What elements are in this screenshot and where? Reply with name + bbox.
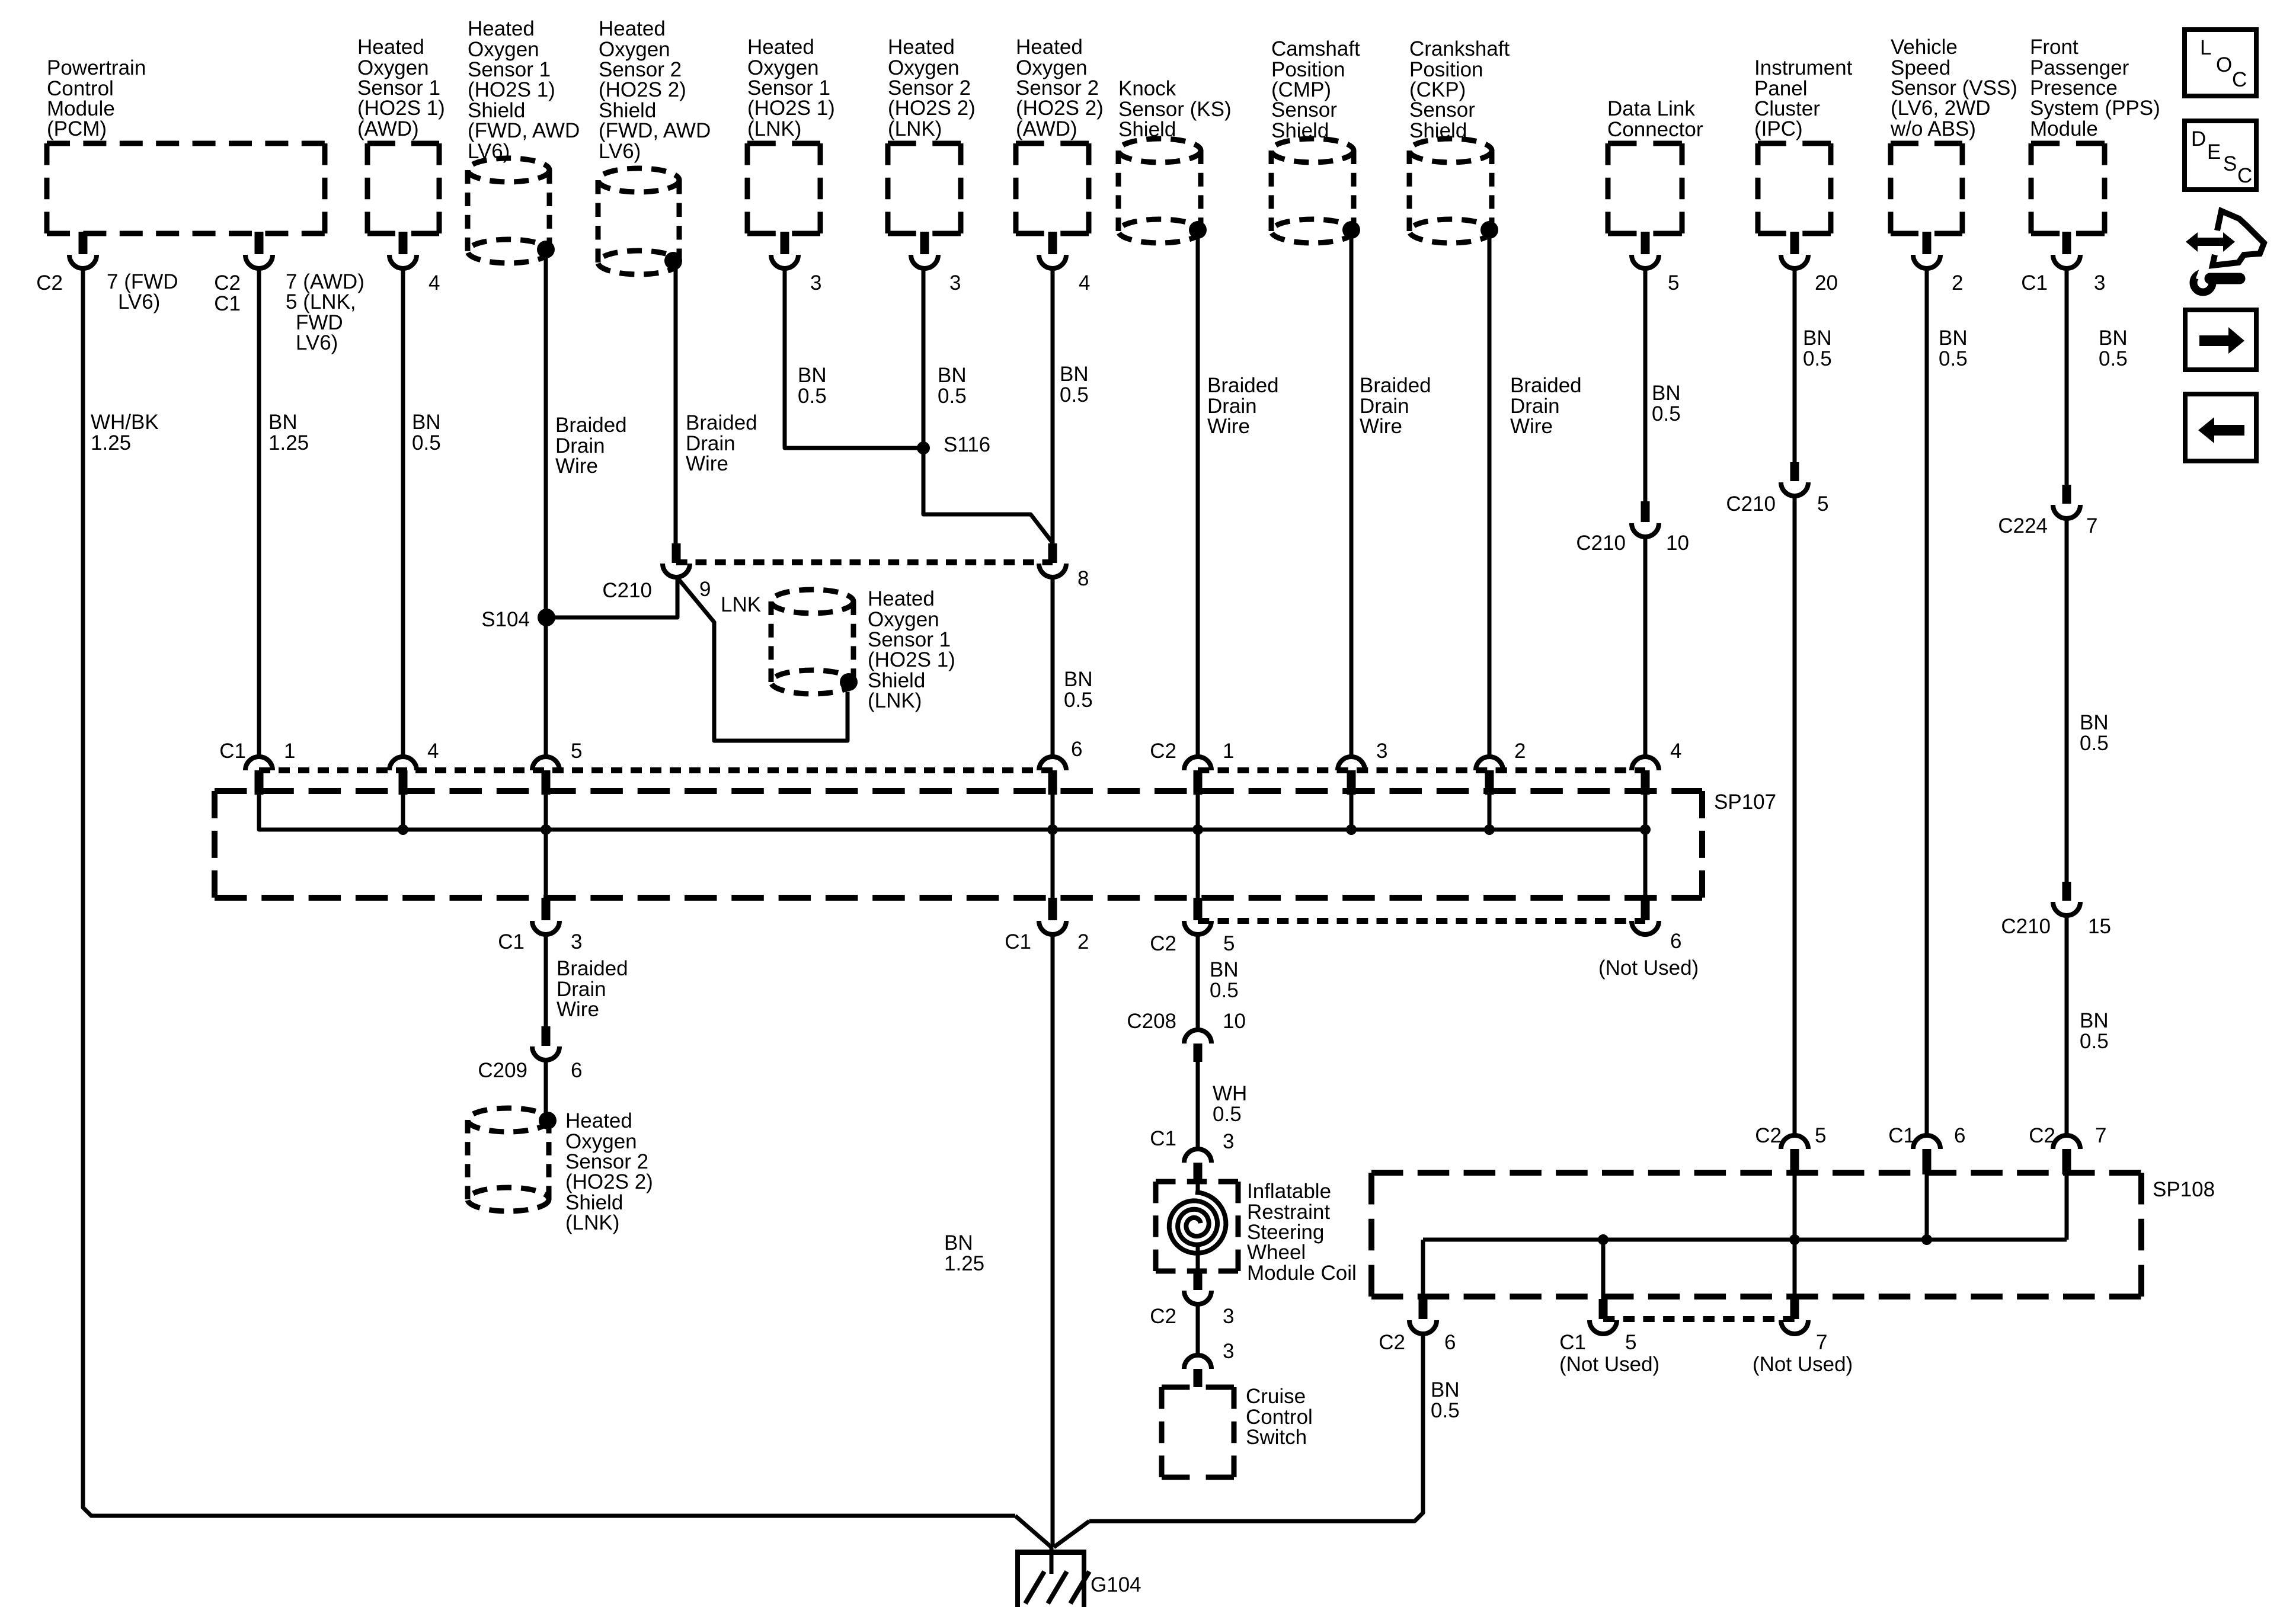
- wire HO2S2 AWD down: [1051, 267, 1055, 543]
- svg-text:1: 1: [1223, 740, 1234, 763]
- bus junction 680: [398, 824, 408, 835]
- HO2S1 AWD box: [367, 141, 439, 146]
- svg-text:Module Coil: Module Coil: [1247, 1262, 1357, 1285]
- svg-text:Heated: Heated: [565, 1109, 632, 1132]
- wire PCM pin7 WH/BK down-left: [83, 267, 1015, 1516]
- wire bus2 to C1-5 not used: [1601, 1240, 1606, 1299]
- svg-text:Switch: Switch: [1246, 1426, 1307, 1449]
- svg-text:(IPC): (IPC): [1754, 117, 1803, 140]
- svg-text:C208: C208: [1127, 1010, 1176, 1033]
- HO2S1 LNK box: [747, 141, 820, 146]
- svg-text:BN: BN: [1210, 958, 1239, 981]
- svg-text:C224: C224: [1998, 514, 2048, 537]
- HO2S2 shield cylinder: [598, 168, 679, 192]
- svg-text:BN: BN: [944, 1231, 973, 1254]
- svg-text:Inflatable: Inflatable: [1247, 1180, 1331, 1203]
- connector C2-5 below SP107: [1194, 898, 1203, 920]
- svg-text:0.5: 0.5: [2099, 347, 2128, 370]
- coil box: [1156, 1179, 1238, 1185]
- svg-text:C1: C1: [219, 740, 246, 763]
- legend LOC box: [2185, 30, 2256, 96]
- svg-text:6: 6: [1954, 1124, 1965, 1147]
- wire HO2S2 LNK through S116 to pin8: [923, 267, 1053, 543]
- connector C1-2 below SP107: [1048, 898, 1057, 920]
- wire C210-15 to SP108 C2-7: [2065, 916, 2069, 1135]
- dotted line C210 row: [676, 559, 1053, 565]
- svg-text:BN: BN: [2099, 327, 2128, 350]
- svg-text:S116: S116: [944, 433, 990, 456]
- svg-text:6: 6: [1071, 738, 1082, 761]
- wire DLC down to C210-10: [1643, 267, 1648, 502]
- svg-text:(FWD, AWD: (FWD, AWD: [599, 119, 711, 142]
- connector C2-5 SP108: [1781, 1135, 1808, 1149]
- wire IPC down to C210-5: [1793, 267, 1797, 463]
- svg-text:BN: BN: [2080, 1009, 2109, 1032]
- wire C1-2 BN1.25 to ground: [1051, 933, 1055, 1547]
- svg-text:7: 7: [1816, 1331, 1827, 1354]
- HO2S2 LNK shield cylinder bottom: [468, 1108, 549, 1132]
- svg-text:Braided: Braided: [1360, 374, 1431, 397]
- DLC pin 5 connector: [1641, 232, 1650, 254]
- connector C1-5 not used: [1599, 1299, 1608, 1319]
- svg-text:C210: C210: [1576, 532, 1626, 555]
- clockspring coil spiral: [1169, 1192, 1226, 1253]
- HO2S1 LNK pin 3 connector: [781, 232, 789, 254]
- svg-text:0.5: 0.5: [1652, 402, 1681, 425]
- svg-text:(Not Used): (Not Used): [1598, 956, 1699, 980]
- svg-text:6: 6: [1444, 1331, 1456, 1354]
- svg-text:Vehicle: Vehicle: [1891, 36, 1958, 59]
- svg-text:5: 5: [1625, 1331, 1636, 1354]
- svg-text:Heated: Heated: [868, 587, 935, 610]
- svg-text:1.25: 1.25: [268, 431, 309, 454]
- svg-text:C2: C2: [1379, 1331, 1405, 1354]
- dotted line notused SP108: [1603, 1316, 1795, 1322]
- connector C2-4: [1632, 757, 1659, 770]
- wire C224-7 to C210-15: [2065, 518, 2069, 883]
- PPS C1 pin 3 connector: [2062, 232, 2071, 254]
- svg-text:BN: BN: [1431, 1378, 1460, 1401]
- wire shield2 braided drain: [674, 261, 678, 543]
- svg-text:4: 4: [427, 740, 439, 763]
- svg-text:Braided: Braided: [557, 957, 628, 980]
- wire bus to C1-2: [1051, 830, 1055, 898]
- wire C2-4 to bus end: [1643, 793, 1648, 830]
- connector C1-6 SP108: [1913, 1135, 1940, 1149]
- svg-text:C2: C2: [36, 271, 63, 295]
- VSS pin 2 connector: [1923, 232, 1932, 254]
- svg-text:4: 4: [1670, 740, 1681, 763]
- svg-text:(LNK): (LNK): [868, 689, 922, 712]
- svg-text:0.5: 0.5: [412, 431, 441, 454]
- svg-text:C: C: [2237, 164, 2252, 187]
- svg-text:C1: C1: [1005, 930, 1031, 953]
- cruise control switch box: [1162, 1385, 1234, 1390]
- wire C208 to C1-3coil: [1196, 1062, 1200, 1149]
- wire bus2 left end to C2-6: [1421, 1240, 1425, 1300]
- svg-text:Heated: Heated: [747, 36, 814, 59]
- svg-text:Braided: Braided: [555, 414, 627, 437]
- svg-text:C1: C1: [498, 930, 525, 953]
- wire C1-6 pin to bus2: [1925, 1174, 1929, 1240]
- wire C210-9 branch to LNK shield: [677, 578, 848, 741]
- connector C210-15: [2062, 882, 2071, 901]
- svg-text:15: 15: [2088, 915, 2111, 938]
- connector C224-7: [2062, 485, 2071, 504]
- svg-text:(HO2S 1): (HO2S 1): [468, 78, 555, 101]
- svg-text:C2: C2: [1150, 1305, 1176, 1328]
- HO2S1 AWD pin 4 connector: [399, 232, 408, 254]
- svg-text:Connector: Connector: [1607, 118, 1703, 141]
- wire CKP conn to bus: [1488, 793, 1492, 830]
- svg-text:BN: BN: [798, 364, 827, 387]
- svg-text:Heated: Heated: [599, 17, 666, 40]
- svg-text:Heated: Heated: [888, 36, 955, 59]
- svg-text:3: 3: [2094, 271, 2105, 295]
- svg-text:C209: C209: [478, 1059, 527, 1082]
- wire C2-6 BN0.5 to ground: [1089, 1334, 1423, 1521]
- svg-text:8: 8: [1077, 567, 1089, 590]
- dot bottom shield: [539, 1112, 557, 1129]
- svg-text:(LNK): (LNK): [888, 117, 942, 140]
- connector C210-5: [1790, 462, 1799, 481]
- svg-text:5: 5: [1668, 271, 1679, 295]
- wire HO2S1AWD BN0.5: [401, 267, 405, 757]
- svg-text:Braided: Braided: [1510, 374, 1582, 397]
- PCM C2 pin 7 connector: [79, 232, 88, 254]
- connector C2-7 SP108: [2053, 1135, 2080, 1149]
- svg-text:3: 3: [1223, 1130, 1234, 1153]
- coil stubs: [1196, 1182, 1200, 1194]
- svg-text:3: 3: [810, 271, 821, 295]
- wire KS drain: [1196, 230, 1200, 757]
- svg-text:LV6): LV6): [296, 331, 338, 354]
- SP108 bus: [1423, 1238, 2067, 1242]
- svg-text:C: C: [2232, 68, 2247, 91]
- svg-text:10: 10: [1223, 1010, 1246, 1033]
- wire C1-3 braided: [544, 935, 548, 1026]
- svg-text:1.25: 1.25: [91, 431, 131, 454]
- svg-text:0.5: 0.5: [938, 385, 967, 408]
- PPS box: [2031, 141, 2105, 146]
- svg-text:Sensor: Sensor: [1409, 98, 1475, 121]
- connector 7 not used: [1790, 1299, 1799, 1319]
- wire PCM pin2 BN1.25: [257, 267, 261, 757]
- HO2S1 shield cylinder: [468, 158, 549, 182]
- bus junction 921: [541, 824, 551, 835]
- bus junction 2513: [1484, 824, 1495, 835]
- connector C2-2: [1476, 757, 1503, 770]
- svg-text:O: O: [2216, 53, 2232, 76]
- connector C210-10: [1641, 501, 1650, 522]
- svg-text:3: 3: [1223, 1340, 1234, 1363]
- svg-text:(HO2S 1): (HO2S 1): [747, 97, 835, 120]
- svg-text:G104: G104: [1091, 1573, 1141, 1596]
- wire C2-4 through bus to 6 not used: [1643, 793, 1648, 898]
- legend DESC box: [2185, 121, 2256, 190]
- svg-text:(FWD, AWD: (FWD, AWD: [468, 119, 580, 142]
- legend service icon: [2195, 238, 2225, 246]
- wire VSS down to SP108 C1-6: [1925, 267, 1929, 1135]
- svg-text:(AWD): (AWD): [1016, 117, 1077, 140]
- svg-text:5: 5: [1815, 1124, 1826, 1147]
- svg-text:S: S: [2223, 152, 2237, 175]
- svg-text:C1: C1: [2021, 271, 2048, 295]
- svg-text:LV6): LV6): [599, 140, 641, 163]
- svg-text:Powertrain: Powertrain: [47, 56, 146, 79]
- svg-text:Heated: Heated: [1016, 36, 1083, 59]
- svg-text:(LNK): (LNK): [747, 117, 801, 140]
- svg-text:S104: S104: [481, 608, 530, 631]
- svg-text:BN: BN: [1064, 668, 1093, 691]
- wire KS conn to bus: [1196, 793, 1200, 830]
- SP107 bus: [259, 793, 1645, 830]
- svg-text:Front: Front: [2030, 36, 2078, 59]
- svg-text:Cruise: Cruise: [1246, 1385, 1306, 1408]
- svg-text:BN: BN: [1939, 327, 1968, 350]
- svg-text:C210: C210: [1726, 492, 1776, 516]
- svg-text:(PCM): (PCM): [47, 117, 107, 140]
- svg-text:(HO2S 2): (HO2S 2): [1016, 97, 1104, 120]
- svg-text:4: 4: [1079, 271, 1090, 295]
- connector C1-4: [389, 757, 417, 770]
- svg-text:Wire: Wire: [555, 454, 598, 478]
- dot CKP shield: [1480, 221, 1498, 239]
- svg-text:3: 3: [949, 271, 961, 295]
- svg-text:(HO2S 2): (HO2S 2): [565, 1170, 653, 1193]
- svg-text:2: 2: [1077, 930, 1089, 953]
- svg-text:Data Link: Data Link: [1607, 97, 1695, 120]
- svg-text:9: 9: [699, 578, 711, 601]
- svg-text:Wire: Wire: [1510, 415, 1553, 438]
- svg-text:0.5: 0.5: [798, 385, 827, 408]
- svg-text:6: 6: [1670, 930, 1681, 953]
- svg-text:C2: C2: [1150, 740, 1176, 763]
- bus junction 2021: [1192, 824, 1203, 835]
- svg-text:Heated: Heated: [357, 36, 424, 59]
- connector C1-1: [245, 757, 273, 770]
- svg-text:C2: C2: [1755, 1124, 1782, 1147]
- splice S116: [917, 441, 930, 454]
- svg-text:Wire: Wire: [557, 998, 599, 1021]
- wire C2-5 to C208: [1196, 935, 1200, 1030]
- svg-text:4: 4: [428, 271, 440, 295]
- bus2 junction IPC: [1789, 1234, 1800, 1245]
- svg-text:Heated: Heated: [468, 17, 535, 40]
- svg-text:BN: BN: [1060, 363, 1089, 386]
- svg-text:WH: WH: [1213, 1082, 1247, 1105]
- svg-text:(LNK): (LNK): [565, 1211, 619, 1234]
- svg-text:6: 6: [571, 1059, 582, 1082]
- svg-text:0.5: 0.5: [1213, 1103, 1242, 1126]
- Data Link Connector box: [1608, 141, 1682, 146]
- wire C209 to shield: [544, 1061, 548, 1117]
- svg-text:7: 7: [2095, 1124, 2106, 1147]
- wire C2-5 pin to bus2: [1793, 1174, 1797, 1240]
- HO2S2 LNK box: [888, 141, 961, 146]
- wire C210-10 to C2-4: [1643, 537, 1648, 757]
- wire bus to C2-5: [1196, 830, 1200, 898]
- svg-text:5 (LNK,: 5 (LNK,: [286, 290, 356, 313]
- connector C210-9: [672, 543, 681, 563]
- wire CMP drain: [1350, 230, 1354, 757]
- HO2S1 LNK shield cylinder: [771, 590, 853, 613]
- wire C1-5 pin through bus to C1-3: [544, 793, 548, 898]
- wire C210-5 to SP108 C2-5: [1793, 496, 1797, 1135]
- svg-text:LNK: LNK: [721, 593, 761, 616]
- wire CMP conn to bus: [1350, 793, 1354, 830]
- svg-text:1.25: 1.25: [944, 1252, 984, 1275]
- dot CMP shield: [1342, 221, 1360, 239]
- wire C2-7 pin to bus2 end: [2065, 1174, 2069, 1240]
- svg-text:2: 2: [1952, 271, 1963, 295]
- svg-text:Braided: Braided: [1207, 374, 1279, 397]
- svg-text:0.5: 0.5: [2080, 1030, 2109, 1053]
- svg-text:C2: C2: [2029, 1124, 2055, 1147]
- svg-text:C1: C1: [1888, 1124, 1915, 1147]
- PCM C2/C1 pin 7/5 connector: [255, 232, 264, 254]
- svg-text:LV6): LV6): [118, 290, 160, 313]
- svg-text:(Not Used): (Not Used): [1559, 1353, 1659, 1376]
- connector 3 cruise: [1184, 1355, 1211, 1369]
- svg-text:BN: BN: [412, 411, 441, 434]
- wire shield1 braided drain: [544, 249, 548, 757]
- dot HO2S1 shield: [537, 241, 555, 258]
- svg-text:0.5: 0.5: [1803, 347, 1832, 370]
- svg-text:0.5: 0.5: [1064, 689, 1093, 712]
- svg-text:WH/BK: WH/BK: [91, 411, 159, 434]
- IPC pin 20 connector: [1790, 232, 1799, 254]
- dot HO2S2 shield: [664, 252, 682, 270]
- svg-text:(HO2S 2): (HO2S 2): [599, 78, 686, 101]
- svg-text:C210: C210: [602, 579, 652, 602]
- splice S104: [538, 609, 555, 626]
- svg-text:3: 3: [571, 930, 582, 953]
- svg-text:(HO2S 2): (HO2S 2): [888, 97, 976, 120]
- svg-text:(HO2S 1): (HO2S 1): [357, 97, 445, 120]
- svg-text:7: 7: [2086, 514, 2097, 537]
- svg-text:SP107: SP107: [1714, 790, 1776, 814]
- ground G104 symbol: [1015, 1550, 1086, 1555]
- wire IPC through bus to 7 not used: [1793, 1240, 1797, 1299]
- svg-text:0.5: 0.5: [1939, 347, 1968, 370]
- bus2 junction C1-5: [1598, 1234, 1609, 1245]
- svg-text:5: 5: [571, 740, 582, 763]
- svg-text:Wire: Wire: [686, 452, 728, 475]
- svg-text:Braided: Braided: [686, 411, 757, 434]
- svg-text:C2: C2: [1150, 932, 1176, 955]
- svg-text:0.5: 0.5: [1210, 979, 1239, 1002]
- svg-text:Sensor: Sensor: [1271, 98, 1337, 121]
- wire C1-4 pin to bus: [401, 793, 405, 830]
- svg-text:Instrument: Instrument: [1754, 56, 1853, 79]
- svg-text:Camshaft: Camshaft: [1271, 37, 1360, 60]
- IPC box: [1758, 141, 1831, 146]
- svg-text:5: 5: [1223, 932, 1235, 955]
- svg-text:BN: BN: [938, 364, 967, 387]
- svg-text:0.5: 0.5: [1431, 1399, 1460, 1422]
- connector C2-3 coil: [1194, 1271, 1203, 1290]
- wire PPS down to C224-7: [2065, 267, 2069, 486]
- svg-text:Crankshaft: Crankshaft: [1409, 37, 1510, 60]
- svg-text:BN: BN: [2080, 711, 2109, 734]
- connector C2-1: [1184, 757, 1211, 770]
- connector C1-5: [532, 757, 559, 770]
- svg-text:C1: C1: [1150, 1127, 1176, 1150]
- bus junction 2776: [1640, 824, 1651, 835]
- dotted line C1 row left: [259, 767, 1053, 773]
- HO2S2 LNK pin 3 connector: [920, 232, 929, 254]
- svg-text:20: 20: [1815, 271, 1838, 295]
- wire CKP drain: [1488, 230, 1492, 757]
- SP108 splice pack box: [1371, 1170, 2141, 1176]
- svg-text:Wire: Wire: [1360, 415, 1402, 438]
- wire ground bevel right: [1054, 1521, 1089, 1547]
- legend right-arrow box: [2185, 310, 2256, 370]
- svg-text:(AWD): (AWD): [357, 117, 419, 140]
- svg-text:D: D: [2191, 127, 2206, 151]
- svg-text:C210: C210: [2001, 915, 2051, 938]
- svg-text:C2: C2: [214, 271, 241, 295]
- dot KS shield: [1189, 221, 1207, 239]
- connector C2-6 below SP108: [1419, 1298, 1428, 1319]
- svg-text:System (PPS): System (PPS): [2030, 97, 2160, 120]
- SP107 splice pack box: [215, 788, 1702, 794]
- wire coil to cruise: [1196, 1304, 1200, 1355]
- VSS box: [1891, 141, 1962, 146]
- connector 8: [1048, 543, 1057, 563]
- connector C2-3: [1338, 757, 1365, 770]
- svg-text:Wheel: Wheel: [1247, 1241, 1306, 1264]
- svg-text:BN: BN: [1652, 382, 1681, 405]
- svg-text:(HO2S 1): (HO2S 1): [868, 648, 955, 671]
- svg-text:E: E: [2207, 140, 2221, 164]
- dotted line notused row: [1198, 918, 1645, 924]
- HO2S2 AWD box: [1016, 141, 1089, 146]
- connector C209-6: [542, 1026, 551, 1046]
- connector C1-3 coil: [1184, 1149, 1211, 1163]
- dotted line C2 row right: [1198, 767, 1645, 773]
- svg-text:(Not Used): (Not Used): [1753, 1353, 1853, 1376]
- connector 6 not used: [1641, 898, 1650, 920]
- svg-text:1: 1: [284, 740, 295, 763]
- HO2S2 AWD pin 4 connector: [1048, 232, 1057, 254]
- bus junction 1776: [1047, 824, 1058, 835]
- svg-text:w/o ABS): w/o ABS): [1890, 117, 1976, 140]
- wire conn6 to bus: [1051, 793, 1055, 830]
- connector C208-10: [1184, 1030, 1211, 1044]
- bus junction 2280: [1346, 824, 1357, 835]
- svg-text:0.5: 0.5: [1060, 383, 1089, 406]
- wire pin8 to conn6 BN0.5: [1051, 576, 1055, 757]
- svg-text:0.5: 0.5: [2080, 732, 2109, 755]
- svg-text:BN: BN: [268, 411, 298, 434]
- connector C1-6: [1039, 757, 1066, 770]
- svg-text:10: 10: [1666, 532, 1689, 555]
- svg-text:BN: BN: [1803, 327, 1832, 350]
- svg-text:L: L: [2200, 36, 2211, 59]
- svg-text:Knock: Knock: [1118, 77, 1176, 100]
- wire S104 branch: [546, 576, 677, 617]
- svg-text:C1: C1: [214, 292, 241, 315]
- KS shield cylinder: [1118, 139, 1201, 162]
- legend left-arrow box: [2185, 394, 2256, 461]
- PCM box: [47, 141, 325, 146]
- svg-text:Module: Module: [2030, 117, 2098, 140]
- CKP shield cylinder: [1409, 139, 1492, 162]
- svg-text:Wire: Wire: [1207, 415, 1250, 438]
- dot LNK shield: [840, 673, 858, 691]
